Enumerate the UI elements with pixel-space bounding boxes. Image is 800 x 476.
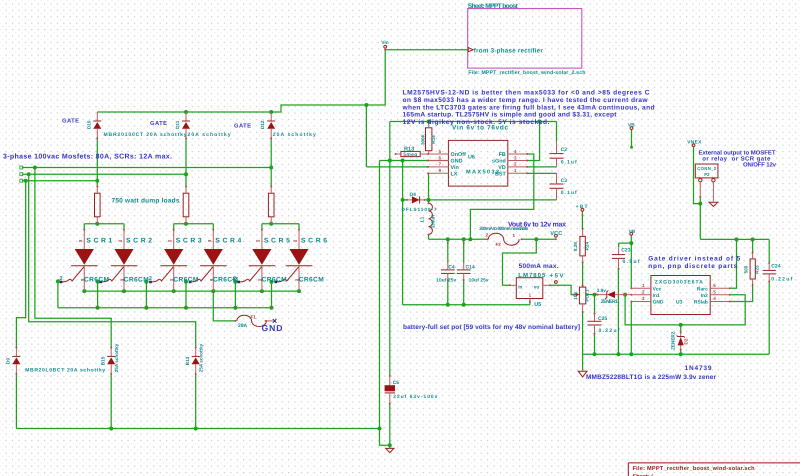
svg-text:C4: C4 xyxy=(448,264,455,270)
svg-text:GATE: GATE xyxy=(150,120,167,127)
svg-text:CONN_2: CONN_2 xyxy=(697,166,717,171)
svg-text:m: m xyxy=(208,238,212,243)
svg-text:28A: 28A xyxy=(238,323,248,329)
svg-text:Sheet: MPPT boost: Sheet: MPPT boost xyxy=(468,3,519,10)
svg-text:500mA max.: 500mA max. xyxy=(519,263,559,270)
svg-text:ON/OFF 12v: ON/OFF 12v xyxy=(743,161,777,168)
svg-text:3.9v: 3.9v xyxy=(597,288,607,294)
svg-text:VCC: VCC xyxy=(550,231,562,237)
svg-text:CR6CM: CR6CM xyxy=(173,276,199,283)
svg-text:m: m xyxy=(293,238,297,243)
svg-text:MMBZ5228BLT1G is a 225mW 3.9v: MMBZ5228BLT1G is a 225mW 3.9v zener xyxy=(586,374,716,381)
svg-text:on $8 max5033 has a wider temp: on $8 max5033 has a wider temp range. I … xyxy=(403,97,649,104)
svg-text:3: 3 xyxy=(642,296,645,301)
svg-text:m: m xyxy=(120,277,124,282)
svg-text:In2: In2 xyxy=(701,293,708,299)
svg-text:FB: FB xyxy=(499,152,506,158)
svg-text:DFLS1100-7: DFLS1100-7 xyxy=(402,207,437,212)
svg-text:m: m xyxy=(79,238,83,243)
svg-text:2: 2 xyxy=(514,162,517,167)
svg-text:165mA startup. TL2575HV is sim: 165mA startup. TL2575HV is simple and go… xyxy=(403,112,618,119)
svg-text:300K: 300K xyxy=(420,133,425,145)
svg-text:ZENER1: ZENER1 xyxy=(601,299,618,305)
svg-text:CR6CM: CR6CM xyxy=(84,276,110,283)
svg-text:GND: GND xyxy=(653,300,664,306)
svg-text:20A schottky: 20A schottky xyxy=(273,132,316,138)
svg-text:File: MPPT_rectifier_boost_win: File: MPPT_rectifier_boost_wind-solar.sc… xyxy=(633,465,756,472)
svg-text:m: m xyxy=(210,277,214,282)
svg-text:.2: .2 xyxy=(147,276,152,282)
svg-text:D12: D12 xyxy=(260,120,265,129)
svg-text:sGnd: sGnd xyxy=(492,159,506,165)
svg-text:6: 6 xyxy=(713,283,716,288)
svg-text:1: 1 xyxy=(514,168,517,173)
svg-text:200mA to 800mA needable: 200mA to 800mA needable xyxy=(479,226,528,232)
svg-text:Vin 6v to 76vdc: Vin 6v to 76vdc xyxy=(452,125,508,132)
svg-text:8: 8 xyxy=(438,168,441,173)
svg-text:GND: GND xyxy=(451,159,463,165)
svg-text:330uH: 330uH xyxy=(430,214,435,228)
svg-text:in: in xyxy=(518,285,522,290)
svg-text:0.1uf: 0.1uf xyxy=(561,160,577,166)
svg-text:F1: F1 xyxy=(251,314,257,319)
svg-text:LM7805: LM7805 xyxy=(518,272,546,279)
svg-text:F2: F2 xyxy=(496,242,502,247)
svg-text:from 3-phase rectifier: from 3-phase rectifier xyxy=(474,47,544,54)
svg-text:or relay or SCR gate: or relay or SCR gate xyxy=(702,155,771,162)
svg-text:7: 7 xyxy=(438,162,441,167)
svg-text:OnOff: OnOff xyxy=(451,152,466,158)
svg-text:.2: .2 xyxy=(232,276,237,282)
svg-text:Vin: Vin xyxy=(381,40,388,46)
svg-text:Vcc: Vcc xyxy=(653,287,662,293)
svg-text:B13: B13 xyxy=(185,356,190,365)
svg-text:U6: U6 xyxy=(468,155,475,161)
svg-text:6: 6 xyxy=(438,155,441,160)
svg-text:25A schottky: 25A schottky xyxy=(198,343,203,372)
svg-text:C24: C24 xyxy=(771,264,780,270)
svg-text:R14: R14 xyxy=(431,135,436,144)
svg-text:Rarc: Rarc xyxy=(697,287,708,293)
svg-text:battery-full set pot [59 volts: battery-full set pot [59 volts for my 48… xyxy=(403,324,580,331)
svg-text:2: 2 xyxy=(486,233,489,238)
svg-text:VB: VB xyxy=(628,123,635,129)
svg-text:U5: U5 xyxy=(534,302,541,308)
svg-text:VB: VB xyxy=(629,229,636,235)
svg-text:CR6CM: CR6CM xyxy=(262,276,288,283)
svg-text:LX: LX xyxy=(451,171,458,177)
svg-text:22uf 63v-100v: 22uf 63v-100v xyxy=(393,394,437,400)
svg-text:5: 5 xyxy=(438,149,441,154)
svg-text:GATE: GATE xyxy=(62,117,79,124)
svg-text:R24: R24 xyxy=(584,242,589,251)
svg-text:C25: C25 xyxy=(598,316,607,322)
svg-text:25A schottky: 25A schottky xyxy=(114,343,119,372)
svg-text:GND: GND xyxy=(262,323,283,333)
svg-text:m: m xyxy=(168,238,172,243)
svg-text:1: 1 xyxy=(513,233,516,238)
svg-text:GATE: GATE xyxy=(234,122,251,129)
svg-text:4: 4 xyxy=(514,149,517,154)
svg-text:ZENER2: ZENER2 xyxy=(670,331,675,350)
svg-text:560: 560 xyxy=(743,265,748,273)
svg-text:5: 5 xyxy=(713,290,716,295)
svg-text:C2: C2 xyxy=(561,147,568,153)
svg-text:m: m xyxy=(170,277,174,282)
svg-text:C5: C5 xyxy=(393,380,399,386)
svg-text:npn, pnp discrete parts: npn, pnp discrete parts xyxy=(648,263,737,270)
svg-text:MBR20100CT 20A schottky: MBR20100CT 20A schottky xyxy=(104,132,187,138)
svg-text:m: m xyxy=(295,277,299,282)
svg-text:P2: P2 xyxy=(704,172,710,177)
svg-text:+BT: +BT xyxy=(576,204,588,210)
svg-text:VD: VD xyxy=(498,165,506,171)
svg-text:B15: B15 xyxy=(101,356,106,365)
svg-text:.2: .2 xyxy=(58,276,63,282)
svg-text:D2: D2 xyxy=(683,338,688,344)
svg-text:C14: C14 xyxy=(466,264,475,270)
svg-text:POT1: POT1 xyxy=(584,289,589,301)
svg-text:8.2K: 8.2K xyxy=(573,241,578,251)
svg-text:when the LTC3703 gates are fir: when the LTC3703 gates are firing full b… xyxy=(402,104,655,111)
svg-text:m: m xyxy=(256,238,260,243)
svg-text:m: m xyxy=(118,238,122,243)
svg-text:10K: 10K xyxy=(573,291,578,300)
svg-text:CR6CM: CR6CM xyxy=(124,276,150,283)
svg-text:LM2575HVS-12-ND is better then: LM2575HVS-12-ND is better then max5033 f… xyxy=(403,90,650,97)
svg-text:0.5uf: 0.5uf xyxy=(623,259,640,265)
svg-text:vo: vo xyxy=(534,285,540,290)
svg-text:External output to MOSFET: External output to MOSFET xyxy=(699,149,776,156)
svg-text:1: 1 xyxy=(642,283,645,288)
svg-text:In1: In1 xyxy=(653,293,660,299)
svg-text:CR6CM: CR6CM xyxy=(299,276,325,283)
svg-text:2: 2 xyxy=(642,290,645,295)
svg-text:MBR20L0BCT 20A schottky: MBR20L0BCT 20A schottky xyxy=(25,368,105,374)
svg-text:R23: R23 xyxy=(755,265,760,274)
svg-text:RSlab: RSlab xyxy=(694,300,708,306)
svg-text:D4: D4 xyxy=(410,192,417,198)
svg-text:10uf 25v: 10uf 25v xyxy=(436,277,456,283)
svg-text:10uf 25v: 10uf 25v xyxy=(469,277,489,283)
svg-text:3-phase 100vac Mosfets: 80A, S: 3-phase 100vac Mosfets: 80A, SCRs: 12A m… xyxy=(3,153,172,161)
svg-text:U3: U3 xyxy=(676,300,683,306)
svg-text:0.1uf: 0.1uf xyxy=(561,190,577,196)
svg-text:3: 3 xyxy=(514,155,517,160)
svg-text:C3: C3 xyxy=(561,178,568,184)
svg-text:m: m xyxy=(258,277,262,282)
svg-text:Vin: Vin xyxy=(451,165,459,171)
svg-text:5meg: 5meg xyxy=(403,152,417,158)
svg-text:20A schottky: 20A schottky xyxy=(188,132,231,138)
svg-text:m: m xyxy=(81,277,85,282)
svg-text:1N4739: 1N4739 xyxy=(685,365,712,372)
svg-text:VNEX: VNEX xyxy=(687,139,702,145)
svg-text:R13: R13 xyxy=(404,146,414,152)
svg-text:Gate driver instead of 5: Gate driver instead of 5 xyxy=(648,255,740,262)
svg-text:+5V: +5V xyxy=(550,273,564,280)
svg-text:L1: L1 xyxy=(419,216,424,222)
svg-text:D10: D10 xyxy=(86,120,91,129)
svg-text:C23: C23 xyxy=(621,247,630,253)
svg-text:4: 4 xyxy=(713,296,716,301)
svg-text:D11: D11 xyxy=(175,120,180,129)
svg-text:ZXGD3003E6TA: ZXGD3003E6TA xyxy=(655,279,703,285)
svg-text:D9: D9 xyxy=(6,358,11,364)
svg-text:750 watt dump loads: 750 watt dump loads xyxy=(112,198,180,205)
svg-text:File: MPPT_rectifier_boost_win: File: MPPT_rectifier_boost_wind-solar_2.… xyxy=(468,70,585,76)
